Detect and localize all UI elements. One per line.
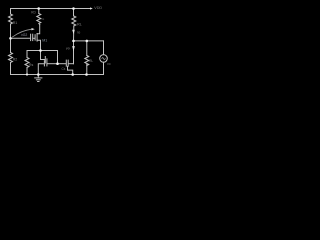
wire right column top lead	[73, 9, 75, 17]
wire source node horizontal	[27, 50, 58, 52]
capacitor CS upper-left plate	[44, 57, 46, 64]
wire right column to output node	[73, 26, 75, 41]
current arrowhead vo	[72, 46, 75, 51]
svg-text:Cs: Cs	[62, 67, 66, 71]
wire top rail VDD	[11, 8, 91, 10]
transistor M1 source lead	[37, 40, 40, 50]
wire gate horizontal	[11, 37, 31, 39]
capacitor CS left plate	[43, 61, 45, 66]
resistor R2	[9, 53, 13, 63]
wire cap C1 to gate	[33, 37, 35, 39]
wire output node down to C2 lead	[73, 41, 75, 64]
wire C2 right lead	[69, 63, 74, 65]
svg-text:VDD: VDD	[94, 6, 102, 10]
node dot source cross	[39, 49, 42, 52]
annotation arrowhead vG2	[32, 28, 35, 30]
resistor RD	[37, 14, 41, 25]
annotation arc vG2	[13, 29, 32, 37]
svg-text:vG2: vG2	[21, 33, 27, 37]
capacitor C2 left plate	[65, 60, 67, 66]
wire output horizontal	[74, 40, 104, 42]
transistor M1 gate bar	[34, 35, 36, 40]
transistor M1 channel bar	[36, 34, 38, 42]
wire left column lower	[10, 63, 12, 75]
ground bar 3	[38, 81, 39, 83]
svg-text:5k: 5k	[41, 17, 45, 21]
node dot RS rail	[26, 73, 28, 75]
wire RS bottom lead	[26, 68, 28, 75]
ground bar 1	[35, 77, 42, 79]
wire load branch top lead	[86, 41, 88, 56]
svg-text:vo: vo	[66, 46, 70, 50]
resistor RL	[72, 16, 76, 26]
capacitor C1 left plate	[30, 34, 32, 40]
node dot RD rail	[37, 7, 40, 10]
meter sine mark	[102, 58, 105, 60]
wire bypass branch vertical	[57, 51, 59, 64]
node dot load top	[86, 40, 89, 43]
svg-text:RL: RL	[89, 59, 93, 63]
node dot hook rail	[71, 73, 74, 76]
svg-text:RD: RD	[31, 10, 36, 14]
svg-text:vo: vo	[107, 62, 111, 66]
wire C2 ground hook	[68, 66, 73, 74]
svg-text:Rs: Rs	[29, 63, 34, 67]
wire RS branch	[26, 51, 28, 58]
capacitor C2 right plate	[67, 60, 69, 66]
wire output right drop	[103, 41, 105, 55]
output meter circle	[100, 55, 108, 63]
resistor RS	[25, 58, 29, 68]
wire left column middle	[10, 25, 12, 53]
resistor Rload	[85, 56, 89, 66]
transistor M1 drain lead	[37, 25, 40, 34]
wire node to C2	[58, 63, 66, 65]
VDD arrowhead	[90, 7, 93, 9]
node dot bypass	[56, 62, 59, 65]
capacitor C1 right plate	[32, 34, 34, 40]
wire bottom rail	[11, 74, 104, 76]
wire CS left lead to ground drop	[38, 64, 44, 75]
node dot ground rail	[37, 73, 40, 76]
node dot output	[72, 40, 75, 43]
node dot gate	[9, 37, 12, 40]
node dot load rail	[85, 73, 88, 76]
wire RD top lead	[38, 9, 40, 14]
wire CS right lead	[47, 63, 57, 65]
svg-text:M1: M1	[42, 39, 47, 43]
wire left column upper lead	[10, 9, 12, 15]
wire load branch bottom lead	[86, 65, 88, 75]
wire source node down jog	[41, 51, 45, 60]
resistor R1	[9, 14, 13, 25]
svg-text:R1: R1	[13, 21, 18, 25]
svg-text:RL: RL	[77, 23, 82, 27]
wire meter bottom lead	[103, 62, 105, 74]
current arrowhead iD	[72, 30, 75, 34]
ground bar 2	[36, 79, 40, 81]
ground stem	[37, 75, 39, 78]
svg-text:R2: R2	[13, 58, 18, 62]
node dot RL rail	[72, 7, 75, 10]
svg-text:io: io	[78, 31, 81, 35]
capacitor CS right plate	[46, 59, 48, 66]
